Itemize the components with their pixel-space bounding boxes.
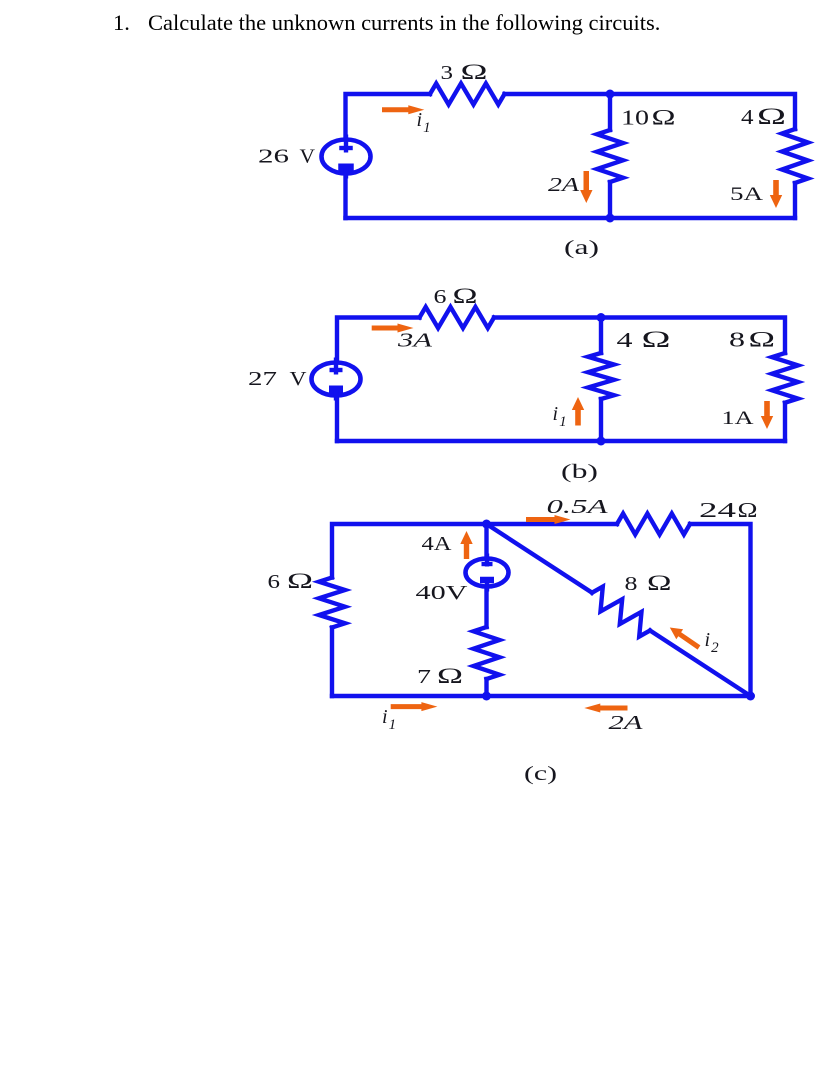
svg-text:1A: 1A (722, 408, 754, 429)
wire right bottom segment (b) (783, 403, 787, 441)
svg-text:3: 3 (441, 62, 454, 84)
svg-text:Ω: Ω (749, 327, 776, 352)
resistor 4 ohm zigzag right (a) (782, 129, 808, 183)
resistor 3 ohm zigzag (a) (430, 84, 505, 105)
wire source to 7 ohm (c) (484, 586, 488, 627)
wire left bottom segment (b) (335, 395, 339, 441)
current arrow i1 up (b) (572, 397, 584, 426)
voltage source 40V (c) (466, 559, 509, 587)
wire bottom rail (c) (332, 694, 751, 698)
svg-text:i1: i1 (417, 109, 431, 136)
svg-text:(a): (a) (564, 237, 599, 259)
wire top-right segment (b) (494, 318, 785, 354)
node junction dot bottom-right corner (c) (746, 692, 755, 701)
svg-text:26: 26 (258, 146, 289, 168)
resistor 6 ohm zigzag left (c) (319, 578, 345, 628)
svg-text:4: 4 (617, 328, 634, 352)
svg-text:i2: i2 (705, 629, 720, 656)
wire left bottom segment (c) (330, 628, 334, 697)
wire middle branch bottom (a) (608, 182, 612, 218)
current arrow 5A down (a) (770, 180, 782, 208)
svg-text:Ω: Ω (453, 283, 478, 308)
wire 7 ohm to bottom rail (c) (484, 679, 488, 696)
svg-text:6: 6 (268, 571, 281, 593)
svg-text:40V: 40V (416, 582, 469, 604)
svg-text:27: 27 (248, 368, 277, 390)
svg-text:Ω: Ω (287, 568, 313, 593)
wire bottom rail (a) (346, 216, 796, 220)
resistor 6 ohm zigzag (b) (420, 307, 495, 328)
current arrow i1 right (c) (391, 702, 438, 711)
svg-text:Ω: Ω (437, 663, 463, 688)
node junction dot top middle (a) (606, 90, 615, 99)
svg-text:4: 4 (741, 105, 754, 129)
voltage source 26V (a) (322, 140, 371, 174)
wire bottom rail (b) (337, 439, 785, 443)
current arrow 4A up (c) (460, 531, 472, 559)
node junction dot top middle (b) (597, 313, 606, 322)
current arrow i2 up-left (c) (670, 628, 701, 650)
resistor 8 ohm zigzag right (b) (772, 353, 798, 403)
svg-text:Ω: Ω (738, 498, 758, 522)
svg-text:V: V (300, 146, 316, 168)
circuit (b): wire top-left segment (337, 318, 420, 364)
node junction dot bottom middle (a) (606, 214, 615, 223)
wire left bottom segment (a) (343, 174, 347, 218)
resistor 24 ohm zigzag (c) (617, 514, 690, 535)
svg-text:5A: 5A (730, 184, 763, 205)
resistor 10 ohm zigzag (a) (597, 130, 623, 182)
node junction dot bottom (c) (482, 692, 491, 701)
svg-text:Ω: Ω (647, 570, 672, 595)
resistor 4 ohm zigzag middle (b) (588, 353, 614, 399)
node junction dot bottom middle (b) (597, 437, 606, 446)
current arrow 2A left (c) (584, 704, 627, 713)
svg-text:8: 8 (729, 328, 745, 352)
svg-text:24: 24 (699, 498, 737, 522)
wire diagonal upper part (c) (487, 524, 593, 593)
svg-text:Calculate the unknown currents: Calculate the unknown currents in the fo… (148, 10, 660, 35)
svg-text:Ω: Ω (461, 59, 488, 84)
current arrow 1A down (b) (761, 401, 773, 429)
circuit (c): wire top rail left of 24 ohm (332, 524, 617, 578)
resistor 7 ohm zigzag (c) (474, 627, 500, 679)
svg-text:Ω: Ω (652, 105, 676, 130)
node junction dot top (c) (482, 520, 491, 529)
svg-text:0.5A: 0.5A (547, 496, 609, 518)
svg-text:Ω: Ω (757, 104, 786, 129)
svg-text:Ω: Ω (642, 327, 671, 352)
svg-text:8: 8 (625, 573, 638, 595)
svg-text:(c): (c) (524, 763, 557, 785)
svg-text:6: 6 (434, 286, 447, 308)
wire middle branch bottom (b) (599, 399, 603, 441)
svg-text:(b): (b) (561, 461, 598, 483)
svg-text:i1: i1 (382, 706, 396, 733)
svg-text:1.: 1. (113, 10, 130, 35)
wire middle branch top (a) (608, 94, 612, 130)
svg-text:2A: 2A (609, 712, 644, 734)
svg-text:4A: 4A (422, 533, 453, 555)
svg-text:2A: 2A (548, 174, 580, 196)
voltage source 27V (b) (312, 363, 361, 396)
svg-text:10: 10 (621, 106, 649, 130)
current arrow 2A down (a) (580, 171, 592, 203)
circuit (a): wire top-left segment (346, 94, 431, 141)
wire right bottom segment (a) (793, 183, 797, 218)
wire middle branch top (b) (599, 318, 603, 354)
wire top-right segment (a) (505, 94, 796, 129)
resistor 8 ohm zigzag on diagonal (c) (592, 587, 650, 637)
svg-text:V: V (290, 368, 308, 390)
current arrow 0.5A right (c) (526, 515, 571, 524)
wire top-right corner + right side (c) (690, 524, 751, 696)
current arrow i1 (a) (382, 105, 424, 114)
wire diagonal lower part (c) (650, 631, 751, 697)
current arrow 3A (b) (372, 324, 414, 333)
svg-text:3A: 3A (396, 330, 433, 352)
svg-text:7: 7 (417, 666, 431, 688)
wire middle branch node to source (c) (484, 524, 488, 559)
svg-text:i1: i1 (553, 403, 567, 430)
